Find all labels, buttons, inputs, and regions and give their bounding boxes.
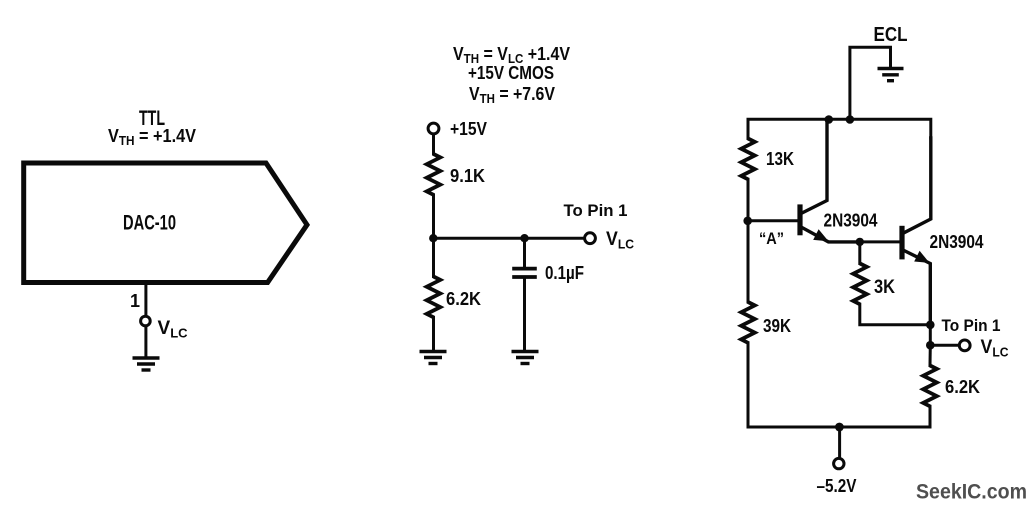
svg-text:To Pin 1: To Pin 1 xyxy=(942,316,1001,335)
svg-text:–5.2V: –5.2V xyxy=(817,476,857,496)
Q2 collector xyxy=(903,138,931,233)
terminal +15V xyxy=(428,123,439,134)
Q1 emitter arrow xyxy=(813,229,828,241)
transistor Q1 2N3904 base bar xyxy=(797,204,802,235)
ground (divider) xyxy=(420,352,447,364)
resistor 3K xyxy=(853,264,867,305)
wire +15V to 9.1K xyxy=(432,134,435,154)
junction Q1 collector on rail xyxy=(825,115,834,124)
junction ECL drop on rail xyxy=(846,115,855,124)
resistor 39K xyxy=(741,302,755,343)
ground ECL xyxy=(878,69,904,81)
Q2 emitter xyxy=(903,250,930,325)
terminal VLC (middle) xyxy=(585,233,596,244)
wire 13K to node A xyxy=(747,179,750,221)
junction -5.2V tap xyxy=(835,423,844,432)
svg-text:SeekIC.com: SeekIC.com xyxy=(916,481,1027,504)
resistor 6.2K (right) xyxy=(923,366,937,407)
Q1 emitter xyxy=(801,227,860,242)
wire junction to Q2 base xyxy=(860,240,900,243)
wire junction to 3K xyxy=(858,242,861,264)
junction node (divider) xyxy=(429,234,437,242)
ground (left) xyxy=(133,358,160,370)
svg-text:6.2K: 6.2K xyxy=(446,289,481,309)
wire VLC node to 6.2K xyxy=(929,345,932,365)
resistor 13K xyxy=(741,139,755,180)
svg-text:9.1K: 9.1K xyxy=(450,166,485,186)
svg-text:To Pin 1: To Pin 1 xyxy=(564,201,628,220)
svg-text:6.2K: 6.2K xyxy=(945,377,980,397)
svg-text:13K: 13K xyxy=(766,149,794,169)
wire capacitor to ground xyxy=(523,277,526,351)
wire node to VLC terminal xyxy=(433,237,584,240)
junction Q1 emitter / Q2 base / 3K xyxy=(856,238,864,246)
capacitor C 0.1uF xyxy=(512,269,537,277)
junction To Pin 1 xyxy=(926,321,935,330)
svg-text:“A”: “A” xyxy=(759,229,784,248)
node A junction xyxy=(743,217,752,226)
wire to ground (left) xyxy=(144,326,147,357)
svg-text:2N3904: 2N3904 xyxy=(930,232,984,252)
transistor Q2 2N3904 base bar xyxy=(899,226,904,260)
svg-text:+15V: +15V xyxy=(450,119,487,139)
terminal VLC (right) xyxy=(959,340,970,351)
wire node A to 39K xyxy=(747,221,750,302)
Q1 collector xyxy=(801,119,827,213)
ground (capacitor) xyxy=(512,352,539,364)
svg-text:+15V CMOS: +15V CMOS xyxy=(468,63,554,83)
wire 39K to bottom rail xyxy=(747,343,750,427)
terminal -5.2V xyxy=(834,458,844,468)
junction VLC node xyxy=(926,341,935,350)
wire node to 6.2K xyxy=(432,238,435,276)
terminal VLC (left) xyxy=(141,316,151,326)
bottom rail wire xyxy=(748,426,930,429)
resistor 6.2K (middle) xyxy=(427,277,441,318)
wire to -5.2V terminal xyxy=(838,427,841,459)
DAC-10 block xyxy=(24,163,307,283)
wire 9.1K to node xyxy=(432,195,435,238)
junction node (capacitor tap) xyxy=(520,234,528,242)
svg-text:DAC-10: DAC-10 xyxy=(123,212,176,235)
wire 6.2K to ground xyxy=(432,317,435,351)
wire VLC node to terminal xyxy=(930,344,959,347)
svg-text:3K: 3K xyxy=(874,277,895,298)
pin 1 wire xyxy=(144,285,147,316)
Q2 emitter arrow xyxy=(914,251,929,263)
wire node A to Q1 base xyxy=(748,219,798,222)
resistor 9.1K xyxy=(427,154,441,195)
wire 3K bottom to To Pin 1 node xyxy=(860,304,931,325)
svg-text:2N3904: 2N3904 xyxy=(824,211,878,231)
wire 6.2K to bottom rail xyxy=(929,406,932,427)
wire to VLC node xyxy=(929,325,932,345)
svg-text:0.1µF: 0.1µF xyxy=(545,263,584,283)
top rail wire xyxy=(748,119,931,138)
svg-text:39K: 39K xyxy=(763,316,791,336)
svg-text:1: 1 xyxy=(130,291,140,311)
svg-text:ECL: ECL xyxy=(874,24,908,46)
wire node to capacitor xyxy=(523,238,526,267)
wire ECL ground drop xyxy=(850,47,891,119)
